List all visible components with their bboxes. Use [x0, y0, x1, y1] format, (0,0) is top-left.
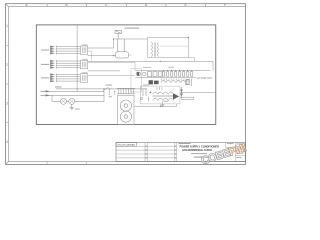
relay K2: [80, 60, 87, 68]
zone ticks top: [47, 4, 205, 7]
zener D6: [180, 90, 183, 93]
choke label: [164, 100, 169, 103]
svg-text:POWER SUPPLY CONDITIONER: POWER SUPPLY CONDITIONER: [180, 144, 220, 148]
connector J2 label: [41, 63, 49, 66]
node D: [160, 61, 161, 62]
ground filter: [161, 102, 165, 107]
circuit diagram cell: [116, 143, 137, 147]
filter label: [143, 84, 149, 87]
fuse F1 label: [125, 28, 140, 29]
wire breaker aux: [129, 54, 132, 56]
title block rows: [116, 146, 177, 158]
breaker CB1: [116, 39, 129, 58]
choke L1 core: [153, 94, 174, 97]
capacitor CX3: [148, 97, 150, 102]
wire relay K3 feed: [88, 74, 135, 76]
node A: [113, 38, 114, 39]
relay K3 tag: [82, 71, 88, 74]
wire mains bus L: [56, 88, 147, 90]
wire +12V rail: [88, 61, 213, 70]
svg-text:4: 4: [6, 140, 8, 144]
wire relay K2 to breaker: [88, 56, 120, 71]
switch S1 label: [106, 84, 113, 87]
connector J1 group rows: [56, 47, 80, 54]
zone number 1: [6, 24, 8, 144]
bus wire vertical: [76, 25, 78, 91]
zone letter A: [25, 3, 226, 7]
diode row D1-D5: [161, 80, 186, 82]
rectifier label: [168, 66, 174, 69]
thyristor Q1: [173, 93, 179, 99]
revision cell dots: [145, 146, 176, 159]
capacitor CX1: [143, 89, 146, 97]
wire choke return: [134, 104, 177, 106]
relay K1 tag: [82, 44, 88, 47]
node B: [103, 88, 104, 89]
connector J4 label: [41, 90, 46, 93]
outlet pin grid: [117, 88, 135, 93]
+5V rail bottom: [136, 76, 197, 78]
connector J2 pin arrows: [50, 60, 56, 69]
bus label: [55, 86, 62, 89]
outlet panel P1: [118, 95, 135, 124]
wire filter out lower: [180, 97, 194, 99]
svg-text:F: F: [224, 3, 226, 7]
drawn-by text: [179, 142, 191, 145]
filter cap CY1: [157, 87, 162, 90]
capacitor bank node dots: [163, 70, 192, 71]
EMI filter module box: [141, 86, 181, 104]
wire interlink K1-K2: [88, 51, 92, 61]
zener chain: [181, 87, 183, 99]
zener D7: [180, 94, 183, 97]
svg-text:1: 1: [6, 24, 8, 28]
capacitor CX2: [140, 97, 143, 100]
outlet socket upper: [120, 100, 131, 111]
relay K2 tag: [82, 58, 88, 61]
code ident text: [191, 152, 207, 155]
cap bank label: [143, 66, 152, 69]
svg-text:3: 3: [6, 102, 8, 106]
choke L1 winding 1: [153, 92, 174, 94]
ground label: [75, 108, 80, 111]
node F: [114, 91, 115, 92]
wire aux rail: [88, 62, 135, 70]
schematic enclosure box: [36, 25, 216, 125]
lamp LP2: [69, 98, 75, 104]
diode comb row: [162, 78, 185, 80]
size cell text: [237, 143, 244, 146]
wire secondary tap: [160, 45, 188, 47]
watermark: [200, 142, 248, 167]
connector J3 label: [41, 76, 49, 79]
transformer T1: [152, 42, 159, 56]
connector J4 pins: [46, 90, 51, 96]
wire relay K1 up: [88, 39, 114, 48]
node C: [150, 92, 152, 94]
wire filter out upper: [180, 91, 216, 93]
regulator U1: [137, 72, 162, 77]
connector J2 group rows: [56, 61, 80, 68]
relay K3: [80, 74, 87, 82]
title block right column: [226, 143, 246, 162]
bridge rectifier BR1: [149, 80, 159, 84]
node T: [188, 37, 189, 38]
svg-text:CIRCUIT DIAGRAM: CIRCUIT DIAGRAM: [117, 143, 135, 146]
connector J1 pin arrows: [50, 46, 56, 55]
outlet socket lower: [120, 111, 131, 122]
zone ticks left: [6, 45, 9, 123]
wire mains feed L: [114, 38, 148, 40]
relay K4 contact block: [137, 72, 140, 76]
sheet frame outer border: [6, 4, 246, 165]
relay K1: [80, 46, 87, 54]
rectifier output parts: [187, 79, 192, 87]
node E: [109, 88, 110, 89]
connector J3 group rows: [56, 75, 80, 82]
wire transformer out: [188, 58, 194, 62]
svg-text:2: 2: [6, 63, 8, 67]
node K: [160, 106, 161, 107]
connector J3 pin arrows: [50, 73, 56, 82]
wire mains bus N: [42, 90, 104, 92]
node G label: [109, 95, 113, 98]
inverter module box: [131, 69, 141, 92]
capacitor bank C1-C8: [163, 72, 193, 77]
svg-text:GOLDENMIDDLE AUDIO: GOLDENMIDDLE AUDIO: [182, 148, 212, 152]
resistor R1: [186, 80, 189, 85]
title block outline: [116, 143, 246, 162]
lamp LP1: [60, 98, 66, 104]
fuse F1: [115, 30, 121, 39]
ground: [70, 104, 74, 110]
sheet frame inner border: [6, 4, 246, 165]
connector J1 label: [41, 49, 49, 52]
size cell label: [227, 142, 234, 145]
wire node B drop: [103, 89, 105, 101]
zone ticks bottom: [47, 162, 205, 165]
wire lamp branch: [52, 95, 104, 101]
title block columns: [145, 143, 177, 162]
connector J5 label: [41, 94, 46, 97]
wire mains bus E: [42, 94, 104, 96]
switch S1 contacts: [103, 87, 115, 95]
node H: [113, 55, 114, 56]
+5V rail top: [136, 70, 211, 72]
choke L1 winding 2: [153, 98, 174, 100]
svg-text:+5 VOLT OUT: +5 VOLT OUT: [197, 77, 213, 80]
transformer loop wiring: [148, 38, 189, 58]
drawing number text: [194, 156, 210, 159]
